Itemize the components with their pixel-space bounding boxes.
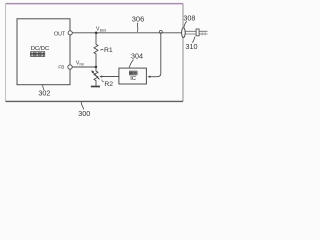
- svg-text:310: 310: [186, 42, 198, 51]
- svg-text:BUS: BUS: [100, 28, 107, 32]
- svg-text:DC/DC: DC/DC: [31, 46, 49, 52]
- svg-text:304: 304: [131, 51, 143, 60]
- svg-text:R1: R1: [104, 47, 113, 54]
- svg-text:302: 302: [38, 89, 50, 98]
- svg-text:306: 306: [132, 15, 145, 24]
- svg-text:300: 300: [78, 109, 90, 118]
- svg-text:FB: FB: [80, 63, 84, 67]
- svg-text:IC: IC: [130, 76, 136, 82]
- svg-text:308: 308: [183, 13, 195, 22]
- svg-text:OUT: OUT: [54, 31, 66, 37]
- svg-text:R2: R2: [104, 81, 113, 88]
- svg-text:FB: FB: [58, 65, 64, 70]
